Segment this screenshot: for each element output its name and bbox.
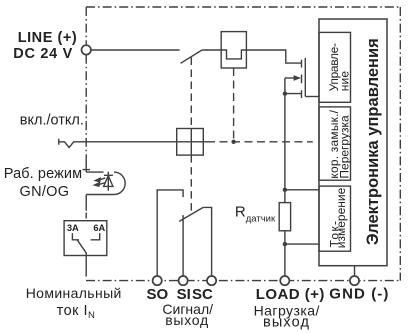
- svg-text:ние: ние: [337, 71, 351, 92]
- manual actuator symbol (on/off): [59, 139, 207, 148]
- dashed sense line from shunt down to node: [233, 68, 235, 142]
- drive box: [177, 129, 204, 156]
- LED emission arrow 1 head: [93, 177, 101, 183]
- label leader to LED: [83, 169, 91, 171]
- signal contact SO bracket: [157, 190, 183, 277]
- svg-text:LOAD (+): LOAD (+): [256, 286, 325, 303]
- sense tap upper: [285, 189, 319, 191]
- sense tap lower: [285, 243, 319, 245]
- MOSFET body-source tie: [284, 78, 286, 94]
- svg-text:Раб. режим: Раб. режим: [4, 166, 82, 182]
- dashed control line to electronics: [207, 141, 313, 143]
- MOSFET Q1 channel: [301, 60, 303, 98]
- wire LINE input horizontal: [91, 49, 180, 51]
- MOSFET body stub: [285, 77, 295, 79]
- svg-text:вкл./откл.: вкл./откл.: [20, 113, 84, 129]
- LED emission arrow 1: [100, 178, 106, 180]
- device outline frame left middle: [85, 55, 87, 161]
- LED left border stub below: [85, 195, 87, 211]
- junction dot sense lower: [283, 242, 287, 246]
- selector contact 3A: [72, 233, 79, 240]
- main switch blade S1: [181, 50, 203, 63]
- junction dot sense upper: [283, 188, 287, 192]
- LED diode: [104, 172, 113, 191]
- terminal SO: [153, 276, 162, 285]
- device outline frame left upper: [85, 7, 87, 45]
- svg-text:ток IN: ток IN: [57, 303, 96, 321]
- terminal LOAD: [280, 276, 289, 285]
- LED left border stub above: [85, 161, 87, 173]
- terminal SC: [207, 276, 216, 285]
- control sub-box (Upravlenie): [319, 32, 351, 102]
- svg-text:LINE (+): LINE (+): [18, 30, 78, 46]
- MOSFET source wire down to LOAD: [284, 94, 286, 277]
- svg-text:DC 24 V: DC 24 V: [13, 46, 73, 62]
- current setting box 3A/6A: [64, 221, 107, 256]
- MOSFET gate lead to control box: [305, 96, 319, 98]
- svg-text:6A: 6A: [93, 223, 105, 233]
- device outline frame bottom: [86, 280, 400, 282]
- svg-text:GN/OG: GN/OG: [20, 184, 70, 200]
- current measurement sub-box: [319, 186, 351, 251]
- junction dot control node: [231, 140, 235, 144]
- svg-text:Номинальный: Номинальный: [26, 285, 122, 301]
- selector blade: [78, 240, 87, 255]
- svg-text:выход: выход: [165, 312, 209, 328]
- terminal LINE: [82, 45, 91, 54]
- control electronics outer box: [319, 19, 387, 266]
- svg-text:выход: выход: [263, 315, 310, 331]
- terminal SI: [179, 276, 188, 285]
- wire GND from electronics box: [354, 266, 356, 277]
- LED housing: [86, 172, 125, 194]
- MOSFET source stub: [285, 93, 302, 95]
- svg-text:GND (-): GND (-): [329, 285, 389, 302]
- LED emission arrow 2 head: [93, 182, 101, 188]
- device outline frame left dash above current-setting box: [85, 213, 87, 219]
- current shunt box: [221, 32, 246, 68]
- MOSFET Q1 gate bar: [304, 58, 306, 97]
- svg-text:3A: 3A: [67, 223, 79, 233]
- terminal GND: [350, 276, 359, 285]
- signal wire SI: [182, 215, 184, 276]
- svg-text:измерение: измерение: [334, 187, 348, 248]
- device outline frame right: [399, 7, 401, 281]
- signal contact blade: [179, 207, 203, 221]
- mechanical link through drive box: [190, 129, 192, 156]
- MOSFET body arrow head: [294, 75, 301, 81]
- selector contact 6A: [91, 233, 100, 240]
- junction dot source tie: [283, 91, 287, 95]
- svg-text:Rдатчик: Rдатчик: [235, 203, 276, 224]
- LED diode triangle: [104, 176, 113, 187]
- svg-text:Электроника управления: Электроника управления: [364, 38, 382, 245]
- svg-text:Перегрузка: Перегрузка: [337, 115, 351, 179]
- wire from switch through shunt to MOSFET drain: [202, 50, 301, 63]
- device outline frame top: [86, 6, 400, 8]
- short-circuit/overload sub-box: [319, 107, 351, 180]
- resistor Rsense box: [279, 203, 290, 231]
- signal wire SC: [203, 207, 211, 276]
- wire below current setting box: [85, 256, 87, 277]
- mechanical link (dashed vertical): [190, 58, 192, 214]
- LED emission arrow 2: [99, 183, 105, 185]
